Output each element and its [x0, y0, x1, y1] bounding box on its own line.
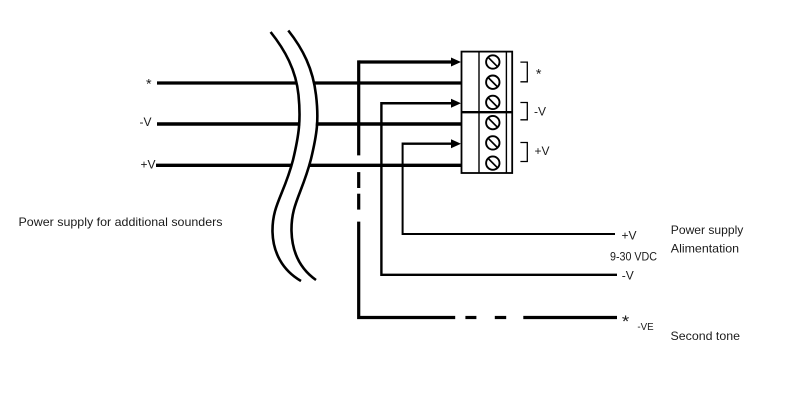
- wire * supply (left horizontal): [157, 81, 463, 84]
- terminal screw 5: [486, 136, 499, 149]
- wire +V power supply feed (to terminal 5): [403, 139, 615, 234]
- svg-text:*: *: [622, 312, 630, 331]
- terminal screw 3: [486, 96, 499, 109]
- svg-text:+V: +V: [535, 144, 550, 158]
- terminal block TB1: [462, 52, 513, 173]
- svg-text:Alimentation: Alimentation: [671, 241, 739, 255]
- bracket pair +V (terminals 5-6): [520, 143, 527, 162]
- wire second-tone feed (vertical with dashes, to terminal 1): [359, 58, 617, 318]
- svg-text:Power supply: Power supply: [671, 223, 744, 237]
- wire +V supply (left horizontal): [156, 164, 463, 167]
- svg-text:Power supply for additional so: Power supply for additional sounders: [19, 215, 223, 229]
- svg-text:Second tone: Second tone: [671, 329, 741, 343]
- terminal screw 1: [486, 55, 499, 68]
- svg-text:-V: -V: [140, 115, 152, 129]
- svg-text:9-30 VDC: 9-30 VDC: [610, 249, 657, 263]
- svg-text:-VE: -VE: [637, 321, 653, 333]
- svg-text:+V: +V: [141, 158, 156, 172]
- wire -V supply (left horizontal): [157, 122, 463, 125]
- cable break symbol: [271, 31, 318, 282]
- terminal screw 4: [486, 116, 499, 129]
- svg-text:-V: -V: [534, 105, 546, 119]
- svg-text:-V: -V: [622, 269, 634, 283]
- terminal screw 2: [486, 76, 499, 89]
- svg-text:+V: +V: [622, 229, 637, 243]
- wire -V power supply feed (to terminal 3): [381, 99, 617, 275]
- bracket pair -V (terminals 3-4): [520, 103, 527, 120]
- svg-text:*: *: [146, 76, 152, 92]
- bracket pair * (terminals 1-2): [520, 62, 527, 82]
- terminal screw 6: [486, 156, 499, 169]
- svg-text:*: *: [536, 65, 542, 81]
